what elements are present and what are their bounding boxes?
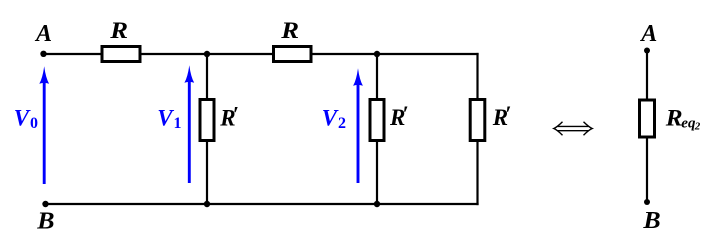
svg-text:B: B xyxy=(642,208,660,234)
node: junction 2 top (dot) xyxy=(374,51,380,57)
wire: second R' down to bottom rail xyxy=(376,141,378,205)
resistor R' (first shunt) xyxy=(200,100,214,141)
label R_eq2 xyxy=(665,105,701,132)
arrow V1 (blue voltage arrow) xyxy=(184,65,194,183)
wire: junction 2 down to second R' xyxy=(376,54,378,100)
svg-text:R′: R′ xyxy=(219,101,239,130)
svg-text:R′: R′ xyxy=(389,101,409,130)
wire: right branch lower segment (third R' down to bottom wire) xyxy=(476,141,478,206)
wire: bottom rail from node B to bottom-right corner xyxy=(45,203,479,205)
svg-text:B: B xyxy=(36,208,54,234)
svg-text:eq: eq xyxy=(681,115,696,131)
wire: first R' down to bottom rail xyxy=(206,141,208,205)
svg-text:A: A xyxy=(639,21,657,47)
node A (left circuit terminal dot) xyxy=(40,51,46,57)
svg-text:V2: V2 xyxy=(322,105,346,132)
wire: right equivalent branch, R_eq2 down to node B xyxy=(646,137,648,202)
resistor R (second series, top middle) xyxy=(274,47,312,62)
wire: right branch upper segment (corner down to third R') xyxy=(476,53,478,100)
arrow V2 (blue voltage arrow) xyxy=(353,68,363,183)
equivalence symbol (long left-right double arrow) xyxy=(554,122,592,135)
wire: right equivalent branch, node A down to R_eq2 xyxy=(646,51,648,101)
svg-text:R′: R′ xyxy=(492,101,512,130)
resistor R' (second shunt) xyxy=(370,100,384,141)
node: junction 2 bottom (dot) xyxy=(374,201,380,207)
svg-text:2: 2 xyxy=(694,121,701,133)
svg-text:A: A xyxy=(34,21,52,47)
resistor R_eq2 (equivalent resistor) xyxy=(640,100,655,137)
wire: node A to resistor R1 (top) xyxy=(44,53,101,55)
resistor R (first series, top left) xyxy=(102,47,140,62)
wire: R1 to R2 through junction node 1 (top) xyxy=(142,53,273,55)
node A (right equivalent circuit dot) xyxy=(644,48,650,54)
arrow V0 (blue voltage arrow, left) xyxy=(39,66,49,184)
node: junction 1 top (dot) xyxy=(204,51,210,57)
svg-text:R: R xyxy=(109,18,128,43)
wire: R2 to top-right corner xyxy=(313,53,479,55)
wire: junction 1 down to first R' xyxy=(206,54,208,100)
node: junction 1 bottom (dot) xyxy=(204,201,210,207)
node B (right equivalent circuit dot) xyxy=(644,199,650,205)
svg-text:V1: V1 xyxy=(157,105,181,132)
svg-text:V0: V0 xyxy=(14,105,38,132)
svg-text:R: R xyxy=(280,18,299,43)
svg-text:R: R xyxy=(665,105,683,131)
node B (left circuit terminal dot) xyxy=(42,201,48,207)
resistor R' (third shunt, right branch) xyxy=(470,100,485,141)
